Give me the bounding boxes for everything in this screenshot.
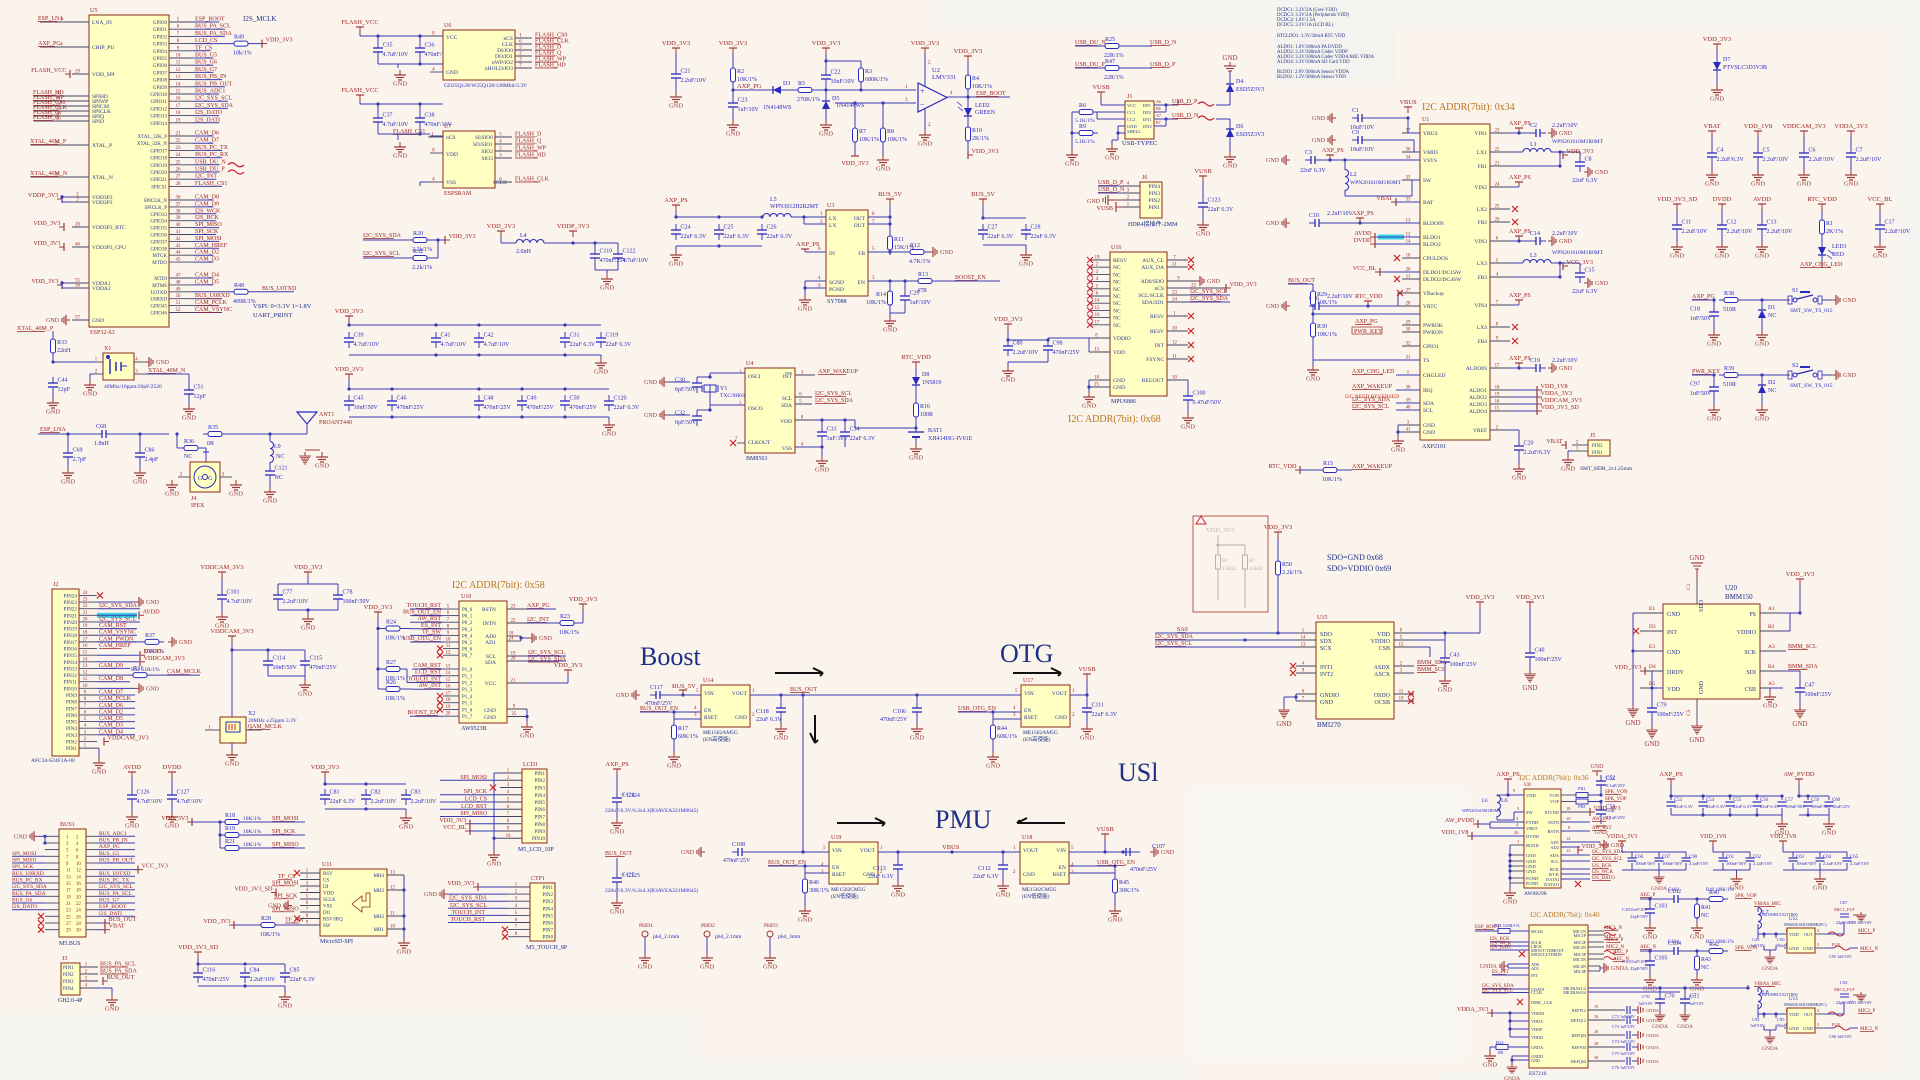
wire [97, 734, 135, 736]
no-connect [1188, 257, 1194, 263]
svg-text:GND: GND [1707, 341, 1721, 348]
svg-text:L5: L5 [770, 197, 777, 203]
j6 wire2 [1098, 192, 1122, 194]
svg-text:D4: D4 [1649, 664, 1656, 670]
svg-text:FB1: FB1 [1578, 786, 1585, 791]
svg-text:ESP_BOOT: ESP_BOOT [195, 17, 225, 23]
svg-text:BUS_G6: BUS_G6 [195, 60, 217, 66]
svg-text:C63: C63 [1796, 855, 1805, 860]
svg-text:VBUS: VBUS [1399, 99, 1417, 106]
power VDD_3V3 [1226, 281, 1257, 292]
net MIC1_P [1858, 929, 1875, 934]
sda wire u8 [1561, 854, 1590, 856]
svg-text:GND: GND [393, 81, 407, 88]
svg-text:GND: GND [1844, 181, 1858, 188]
ref cap C72 [1588, 1004, 1638, 1019]
net ESP_BOOT [195, 17, 225, 23]
svg-text:25: 25 [176, 160, 181, 165]
svg-text:VDD_SPI: VDD_SPI [92, 72, 115, 78]
vdd chain [1492, 1011, 1529, 1037]
svg-text:R30: R30 [1317, 324, 1327, 330]
svg-text:22: 22 [511, 619, 516, 624]
svg-text:U4: U4 [746, 361, 753, 367]
svg-text:24: 24 [509, 637, 514, 642]
svg-text:16: 16 [76, 882, 81, 887]
svg-text:GPIO18: GPIO18 [150, 157, 167, 162]
svg-text:MH4: MH4 [373, 874, 384, 879]
svg-text:PIN2: PIN2 [534, 779, 545, 784]
svg-text:GND: GND [891, 892, 905, 899]
power VDDCAM_3V3 [200, 564, 243, 578]
capacitor C21 [671, 68, 707, 84]
ground [798, 295, 812, 313]
j6 gnd [1087, 195, 1122, 205]
svg-text:C67: C67 [1662, 855, 1671, 860]
wire13 [97, 667, 130, 669]
capacitor C79 [1647, 702, 1685, 718]
svg-text:PROANT440: PROANT440 [319, 420, 352, 426]
svg-text:1uF/10V: 1uF/10V [1638, 1001, 1653, 1006]
svg-text:VDDCAM_3V3: VDDCAM_3V3 [1541, 397, 1582, 404]
r27 wire [400, 669, 443, 683]
net VBIAS_MIC [1754, 982, 1782, 987]
IC U1 AXP2101 [1420, 124, 1490, 440]
svg-text:GNDIO: GNDIO [1320, 693, 1340, 699]
svg-text:C22: C22 [831, 70, 841, 76]
svg-text:TF_CS: TF_CS [278, 874, 295, 880]
power VDD_1V8 [1744, 123, 1773, 137]
svg-text:C97: C97 [1690, 382, 1700, 388]
svg-text:470nF/25V: 470nF/25V [203, 977, 231, 983]
bus5v caps [981, 205, 1026, 250]
gnd pair [305, 449, 320, 451]
net I2C_SYS_SDA [12, 884, 47, 890]
IC U14 boost LDO [701, 685, 750, 727]
power VDD_3V3 [439, 817, 470, 828]
svg-text:CC1: CC1 [1127, 110, 1135, 115]
wire c69 drop [67, 434, 69, 447]
capacitor C42 [474, 332, 510, 348]
svg-text:VDD_3V3: VDD_3V3 [662, 40, 691, 47]
u17 out [1070, 680, 1089, 702]
svg-text:LX2: LX2 [1477, 207, 1487, 213]
arrow 4 [837, 818, 885, 826]
ground [1584, 278, 1609, 288]
svg-text:C78: C78 [343, 590, 353, 596]
c125 gnd [616, 888, 618, 898]
svg-text:ANT1: ANT1 [319, 412, 334, 418]
power VDD_3V3_SD [234, 886, 276, 897]
svg-text:14: 14 [1095, 299, 1100, 304]
r44 gnd [992, 744, 994, 752]
svg-text:VOUT: VOUT [732, 691, 748, 697]
svg-text:GND: GND [1113, 385, 1125, 391]
net BUS_ADC1 [99, 831, 127, 837]
svg-text:GND: GND [883, 327, 897, 334]
net XTAL_40M_P [17, 326, 54, 332]
svg-text:10: 10 [176, 54, 181, 59]
ad gnd [519, 636, 528, 641]
u4 vdd net [815, 418, 855, 428]
mic caps [1750, 1004, 1794, 1034]
c22 branch [824, 54, 861, 69]
wire [98, 849, 135, 851]
connector BUS1 M5BUS [59, 829, 86, 937]
svg-text:18: 18 [1495, 386, 1500, 391]
capacitor C8 [1575, 156, 1592, 172]
power FLASH_VCC [341, 19, 378, 33]
svg-text:VCC: VCC [446, 35, 458, 41]
svg-text:23: 23 [83, 598, 88, 603]
ground [1306, 365, 1320, 383]
u2 vcc [924, 54, 926, 60]
svg-text:+ C124: + C124 [622, 793, 640, 799]
svg-text:GND: GND [986, 763, 1000, 770]
svg-text:1N4148WS: 1N4148WS [836, 103, 864, 109]
svg-text:VDD_3V3: VDD_3V3 [972, 148, 999, 155]
wire r36 to j4 [203, 448, 209, 462]
power VDD_3V3 [719, 40, 748, 54]
svg-text:CAM_MCLK: CAM_MCLK [167, 669, 202, 675]
svg-text:2.2uF/10V: 2.2uF/10V [1682, 229, 1709, 235]
ground GND [1522, 670, 1537, 692]
capacitor C39 [344, 332, 380, 348]
svg-text:BUS_PB_OUT: BUS_PB_OUT [195, 81, 233, 87]
svg-text:VIN1: VIN1 [1474, 131, 1487, 137]
svg-text:SDI: SDI [1746, 670, 1756, 676]
j3 stubs [80, 963, 98, 989]
svg-text:14: 14 [176, 82, 181, 87]
svg-text:AXP_PS: AXP_PS [1509, 121, 1531, 127]
svg-text:13: 13 [66, 875, 71, 880]
u17 pins [1013, 689, 1075, 718]
svg-text:BUS1: BUS1 [60, 822, 75, 828]
svg-text:10: 10 [1399, 697, 1404, 702]
svg-text:GND: GND [819, 131, 833, 138]
net CAM_D9 [99, 663, 123, 669]
ground [644, 377, 668, 387]
pullup rail [192, 820, 222, 848]
ground [1755, 242, 1769, 260]
svg-text:XTAL_N: XTAL_N [92, 175, 113, 181]
ground [301, 614, 315, 632]
power BUS_OUT [105, 916, 137, 927]
svg-text:J6: J6 [1142, 175, 1147, 181]
mic gnda right [1853, 994, 1859, 996]
svg-text:C48: C48 [484, 396, 494, 402]
svg-text:IN: IN [829, 251, 835, 257]
svg-text:C68: C68 [96, 424, 106, 430]
net AXP_PG [99, 844, 120, 850]
capacitor C23 [728, 97, 760, 113]
svg-text:I2S_WCK: I2S_WCK [195, 208, 221, 214]
svg-text:GND: GND [1105, 155, 1119, 162]
ground [1108, 906, 1122, 924]
svg-text:VDDA: VDDA [1531, 1019, 1543, 1024]
svg-text:CAM_VSYNC: CAM_VSYNC [195, 307, 232, 313]
power AXP_PS [1509, 121, 1531, 133]
svg-text:41: 41 [176, 230, 181, 235]
resistor R5 [793, 81, 820, 103]
svg-text:USB_OTG_EN: USB_OTG_EN [403, 636, 442, 642]
svg-text:C101: C101 [227, 590, 240, 596]
capacitor C38 [415, 112, 453, 128]
connector CTP1 [530, 883, 555, 941]
svg-text:BUS_OUT: BUS_OUT [790, 687, 817, 693]
svg-text:VDDIO: VDDIO [1737, 630, 1757, 636]
c9 wire [1368, 140, 1420, 152]
svg-text:L9: L9 [274, 444, 281, 450]
bank gnd drop [1819, 870, 1821, 874]
svg-text:SGND: SGND [829, 280, 844, 286]
svg-text:C14: C14 [1530, 231, 1540, 237]
power AW_PVDD [1783, 771, 1815, 785]
svg-text:BMM150: BMM150 [1725, 593, 1753, 601]
vref wire [1510, 430, 1519, 440]
capacitor C10 [1309, 213, 1325, 227]
svg-text:OCSB: OCSB [1374, 700, 1390, 706]
svg-text:GND: GND [1822, 830, 1836, 837]
j6 vusb [1096, 202, 1122, 212]
ground [918, 130, 932, 148]
svg-text:GND: GND [1690, 986, 1704, 993]
net USB_D_N [1172, 113, 1199, 119]
svg-text:VDDCAM_3V3: VDDCAM_3V3 [200, 564, 243, 571]
net I2S_DATI [195, 117, 220, 123]
svg-text:GND: GND [594, 369, 608, 376]
svg-text:D5: D5 [832, 96, 839, 102]
svg-text:FB3: FB3 [1478, 275, 1488, 281]
svg-text:VDD_3V3: VDD_3V3 [449, 233, 476, 240]
svg-text:USB_D_P: USB_D_P [1172, 99, 1198, 105]
svg-text:MTDI: MTDI [154, 277, 167, 282]
svg-text:VDDCAM_3V3: VDDCAM_3V3 [108, 735, 149, 742]
svg-text:C116: C116 [203, 968, 216, 974]
svg-text:C2: C2 [1530, 123, 1537, 129]
capacitor C70 [1655, 993, 1675, 1009]
net BMM_SDA [1417, 660, 1447, 666]
mic gnda right [1853, 914, 1859, 916]
r29 r30 [1311, 310, 1420, 318]
net TOUCH_INT [451, 910, 485, 916]
svg-text:270K/1%: 270K/1% [797, 97, 820, 103]
vdd wires u15 [1414, 608, 1530, 657]
wire [98, 915, 135, 917]
svg-text:16: 16 [446, 685, 451, 690]
svg-text:0R: 0R [207, 441, 214, 447]
svg-text:DRDY: DRDY [1667, 670, 1685, 676]
ground [1707, 330, 1721, 348]
net SPI_MOSI [272, 880, 299, 886]
svg-text:1nF/50V: 1nF/50V [1690, 316, 1712, 322]
svg-text:VBackup: VBackup [1423, 291, 1444, 297]
rnc [1696, 899, 1698, 905]
svg-text:MSM261S4030H0R(PC): MSM261S4030H0R(PC) [1784, 922, 1827, 927]
mic gnda [1757, 934, 1759, 938]
svg-text:10K/1%: 10K/1% [385, 636, 405, 642]
svg-text:J5: J5 [1590, 433, 1595, 439]
svg-text:RSET: RSET [1024, 715, 1038, 721]
svg-text:L3: L3 [1530, 253, 1537, 259]
net SPI_SCK [12, 864, 33, 870]
svg-text:22uF 6.3V: 22uF 6.3V [767, 234, 793, 240]
svg-text:GND: GND [1755, 341, 1769, 348]
led2 wire [967, 97, 969, 104]
net FLASH_HD [33, 90, 64, 96]
svg-text:ESP32-S3: ESP32-S3 [90, 330, 115, 336]
no-connect [437, 693, 443, 699]
svg-text:100nF/25V: 100nF/25V [1805, 692, 1833, 698]
capacitor C36 [415, 42, 453, 58]
svg-text:D2: D2 [1768, 380, 1775, 386]
net BUS_U0TXD [262, 286, 297, 292]
svg-text:ESP_LNA: ESP_LNA [40, 427, 66, 433]
svg-text:18: 18 [1566, 806, 1571, 811]
svg-text:470nF/25V: 470nF/25V [310, 665, 338, 671]
svg-text:R42 100K/1%: R42 100K/1% [1706, 940, 1734, 945]
svg-text:19: 19 [1495, 393, 1500, 398]
net BUS_PA_SDA [12, 891, 46, 897]
svg-text:AXP_WAKEUP: AXP_WAKEUP [818, 369, 859, 375]
svg-text:GND: GND [1689, 554, 1704, 562]
c58 gnd [1595, 818, 1609, 836]
capacitor C64 [1816, 852, 1844, 870]
svg-text:BUS_PA_SCL: BUS_PA_SCL [195, 24, 231, 30]
svg-text:20: 20 [76, 895, 81, 900]
svg-text:AXP_PS: AXP_PS [1509, 175, 1531, 181]
svg-text:P0_0: P0_0 [462, 608, 473, 613]
c gnd [1649, 969, 1651, 975]
ground [125, 812, 139, 830]
wire d3 r5 [786, 89, 793, 91]
svg-text:R31: R31 [133, 666, 143, 672]
svg-text:100nF/25V: 100nF/25V [1535, 657, 1563, 663]
svg-text:11: 11 [176, 61, 181, 66]
IC U19 pmu LDO [829, 842, 878, 884]
wire xtal40 [52, 331, 54, 334]
svg-text:510R: 510R [1723, 307, 1736, 313]
svg-text:1N5819: 1N5819 [922, 380, 941, 386]
svg-text:VIN: VIN [704, 691, 714, 697]
svg-text:RESV: RESV [1150, 329, 1164, 335]
net CAM_RST [413, 663, 441, 669]
svg-text:2.0nH: 2.0nH [516, 249, 532, 255]
svg-text:I2C ADDR(7bit): 0x36: I2C ADDR(7bit): 0x36 [1519, 773, 1589, 782]
c126 gnd [131, 805, 133, 812]
svg-text:NC: NC [1113, 316, 1121, 322]
svg-text:R41: R41 [1701, 905, 1711, 911]
svg-text:PIN4: PIN4 [63, 987, 74, 992]
wire16 [97, 641, 140, 643]
net BUS_PC_TX [99, 878, 129, 884]
svg-text:4.7uF/10V: 4.7uF/10V [441, 342, 468, 348]
wire [12, 869, 45, 871]
u4 pins [735, 370, 815, 448]
r28 wire2 [280, 924, 300, 926]
wire [410, 615, 443, 617]
U6 pins [430, 32, 532, 73]
net CAM_VSYNC [195, 307, 232, 313]
svg-text:PS: PS [1749, 612, 1756, 618]
svg-text:13: 13 [390, 871, 395, 876]
j6 stubs [1122, 182, 1140, 208]
svg-text:BUS_5V: BUS_5V [672, 683, 696, 690]
svg-text:0R: 0R [1498, 1050, 1503, 1055]
capacitor [776, 702, 786, 718]
svg-text:C92: C92 [1840, 980, 1848, 985]
bank rails VDDA_3V3 [1622, 846, 1686, 870]
svg-text:21: 21 [83, 611, 88, 616]
svg-text:1uF/10V: 1uF/10V [1750, 1023, 1765, 1028]
svg-text:OSCO: OSCO [748, 406, 763, 412]
svg-text:PHD1: PHD1 [639, 923, 653, 929]
svg-text:10K/1%: 10K/1% [859, 137, 879, 143]
ref cap C73 [1588, 1014, 1638, 1029]
svg-text:2.2uF/10V: 2.2uF/10V [1727, 229, 1754, 235]
svg-text:22uF 6.3V: 22uF 6.3V [1092, 712, 1118, 718]
ground [1729, 874, 1743, 892]
svg-text:C36: C36 [425, 43, 435, 49]
net AW_RST [417, 616, 441, 622]
ground [1082, 392, 1096, 410]
svg-text:60K/1%: 60K/1% [678, 734, 698, 740]
svg-text:GND: GND [774, 735, 788, 742]
j5 stubs [1572, 441, 1588, 452]
capacitor C11 [1672, 219, 1708, 235]
capacitor C13 [1757, 219, 1793, 235]
svg-text:GND: GND [1312, 116, 1326, 122]
vin1 wire [1510, 131, 1530, 134]
svg-text:C27: C27 [988, 225, 998, 231]
net XTAL_40M_N [30, 171, 68, 177]
svg-text:BUS_U0RXD: BUS_U0RXD [195, 293, 230, 299]
svg-text:C45: C45 [354, 396, 364, 402]
wire C17 [1879, 210, 1881, 219]
svg-text:PIN2: PIN2 [63, 973, 74, 978]
ground [1705, 170, 1719, 188]
svg-text:FB: FB [858, 251, 865, 257]
svg-text:GND: GND [910, 735, 924, 742]
svg-text:R32: R32 [413, 249, 423, 255]
ad wires [1561, 836, 1600, 853]
no-connect [1188, 356, 1194, 362]
net CAM_D4 [195, 273, 219, 279]
ground [1312, 135, 1336, 145]
ground [798, 906, 812, 924]
r28 wire [234, 924, 256, 926]
wire l4 left [500, 237, 502, 243]
c8 gnd [1579, 170, 1581, 172]
r10 down [967, 146, 969, 155]
ground [399, 813, 413, 831]
wire r32 up [432, 240, 438, 258]
x2 pins [205, 726, 262, 751]
capacitor C120 [604, 395, 640, 411]
svg-text:BUS_OUT: BUS_OUT [605, 851, 632, 857]
svg-text:22: 22 [1495, 148, 1500, 153]
svg-text:C113: C113 [873, 866, 886, 872]
svg-text:C98: C98 [1053, 341, 1063, 347]
resistor R1 [1820, 215, 1844, 239]
net CAM_D6 [195, 131, 219, 137]
svg-text:R12: R12 [910, 243, 920, 249]
power VDDA_3V3 [1457, 1006, 1492, 1017]
svg-text:R?: R? [1249, 558, 1256, 564]
ground [315, 452, 329, 470]
svg-text:VDD: VDD [1789, 932, 1799, 937]
svg-text:D4: D4 [1236, 79, 1243, 85]
svg-text:PIN2: PIN2 [542, 893, 553, 898]
